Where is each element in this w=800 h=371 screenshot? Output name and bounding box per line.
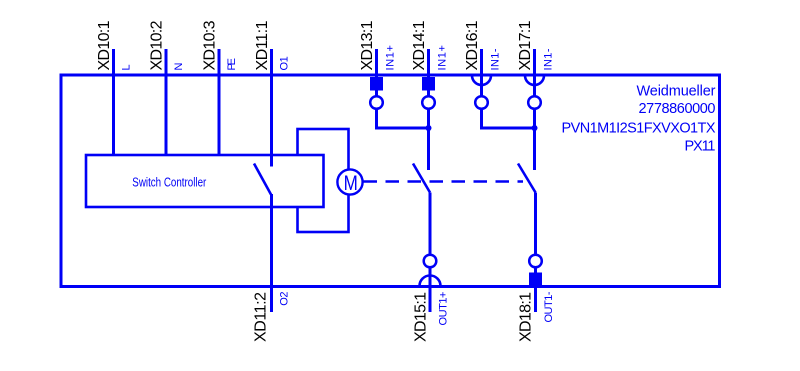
svg-text:Switch Controller: Switch Controller [132,175,206,189]
svg-text:OUT1+: OUT1+ [438,292,450,326]
svg-text:XD10:1: XD10:1 [96,20,113,70]
svg-text:OUT1-: OUT1- [543,291,555,322]
svg-text:PVN1M1I2S1FXVXO1TX: PVN1M1I2S1FXVXO1TX [562,121,716,137]
svg-text:XD16:1: XD16:1 [464,20,481,70]
svg-text:XD17:1: XD17:1 [517,20,534,70]
svg-text:XD15:1: XD15:1 [413,292,430,342]
svg-text:XD14:1: XD14:1 [411,20,428,70]
svg-text:M: M [344,171,358,195]
svg-text:IN1-: IN1- [543,48,555,70]
svg-text:XD11:2: XD11:2 [253,292,270,342]
svg-text:XD13:1: XD13:1 [359,20,376,70]
svg-text:XD10:2: XD10:2 [149,20,166,70]
svg-text:PX11: PX11 [685,139,716,155]
svg-text:XD11:1: XD11:1 [254,20,271,70]
svg-text:2778860000: 2778860000 [639,101,716,117]
svg-text:IN1+: IN1+ [385,45,397,71]
svg-text:PE: PE [226,58,238,71]
svg-text:XD10:3: XD10:3 [202,20,219,70]
svg-text:N: N [173,63,185,71]
svg-text:XD18:1: XD18:1 [518,292,535,342]
svg-text:O1: O1 [279,56,291,70]
svg-text:Weidmueller: Weidmueller [637,84,716,100]
svg-text:O2: O2 [279,292,291,306]
svg-text:IN1-: IN1- [490,48,502,70]
svg-text:L: L [121,64,133,70]
svg-text:IN1+: IN1+ [437,45,449,71]
